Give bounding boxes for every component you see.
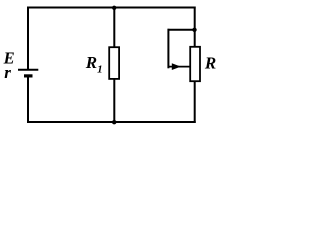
node: junction dot top middle [112,6,116,10]
node: junction dot bottom middle [112,120,116,124]
wire: left side upper (to battery) [27,7,29,70]
battery E,r short thick plate [24,74,33,77]
wire: middle branch lower (R1 to bottom) [113,79,115,123]
wire: right side upper (to resistor R) [194,7,196,47]
node: junction dot right (wiper tap) [192,28,196,32]
wire: top side [27,7,196,9]
wire: wiper horizontal into R [168,66,191,68]
wire: middle branch upper (top to R1) [113,7,115,48]
wire: wiper vertical [167,29,169,69]
wiper arrowhead [172,63,181,70]
resistor R (rheostat) body [190,47,200,81]
wire: bottom side [27,121,196,123]
wire: wiper tap horizontal [168,29,195,31]
wire: right side lower (resistor R to bottom) [194,82,196,124]
svg-text:R: R [204,54,216,73]
wire: left side lower (battery to bottom) [27,76,29,123]
battery E,r long plate [18,69,38,71]
svg-text:r: r [4,63,11,82]
resistor R1 body [109,47,119,79]
svg-text:R1: R1 [85,53,103,76]
